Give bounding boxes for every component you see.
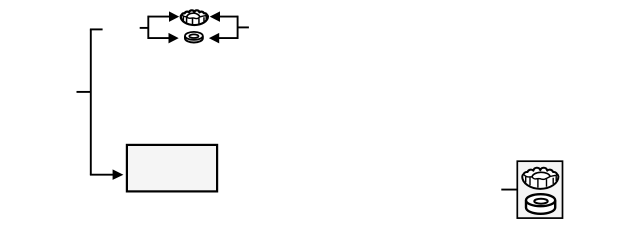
arrow bottom-right pointing left at washer bbox=[209, 33, 219, 44]
wire: main bracket bottom lead to box bbox=[90, 174, 114, 176]
wire: main bracket top stub bbox=[90, 28, 103, 30]
arrow top-right pointing left at cap bbox=[210, 11, 220, 22]
wire: main bracket middle tick bbox=[77, 91, 91, 93]
wire: assembly right stub bbox=[238, 26, 249, 28]
cap part (right box, knurled cap) bbox=[522, 168, 558, 189]
wire: main bracket vertical bbox=[90, 29, 92, 174]
wire: assembly top-right horizontal bbox=[220, 16, 239, 18]
wire: assembly bottom-left horizontal bbox=[148, 37, 170, 39]
washer part (right box, grommet) bbox=[526, 194, 555, 214]
wire: right group stub bbox=[501, 189, 517, 191]
wire: assembly right bracket vertical bbox=[237, 16, 239, 39]
box: main callout rectangle bbox=[127, 145, 217, 192]
wire: assembly left bracket vertical bbox=[147, 16, 149, 39]
cap part (top assembly, knurled cap) bbox=[181, 10, 208, 25]
arrow top-left pointing right at cap bbox=[169, 11, 179, 22]
box: right parts frame bbox=[517, 161, 562, 218]
wire: assembly top-left horizontal bbox=[148, 16, 170, 18]
wire: assembly left stub bbox=[140, 27, 149, 29]
arrow bottom-left pointing right at washer bbox=[169, 33, 179, 44]
wire: assembly bottom-right horizontal bbox=[219, 37, 239, 39]
washer part (top assembly, grommet) bbox=[185, 32, 203, 43]
arrow into main box bbox=[113, 169, 124, 180]
